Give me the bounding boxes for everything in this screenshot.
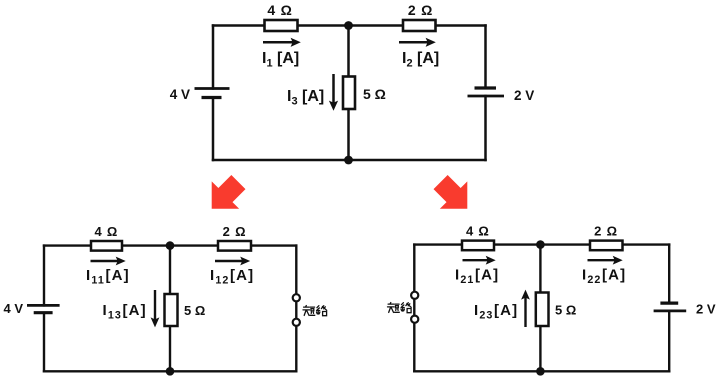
svg-text:4 V: 4 V	[170, 87, 190, 102]
svg-text:4 V: 4 V	[3, 301, 23, 316]
svg-text:4 Ω: 4 Ω	[466, 224, 490, 239]
wire right lower	[484, 96, 487, 160]
wire middle upper	[347, 26, 350, 77]
wire right BL (shorted branch)	[295, 246, 297, 372]
svg-text:4 Ω: 4 Ω	[94, 224, 118, 239]
current arrow I1	[263, 38, 301, 47]
terminal circle BL lower	[293, 319, 300, 326]
current arrow I23 (up)	[521, 290, 530, 327]
wire right upper BR	[668, 245, 670, 304]
wire middle upper BR	[539, 245, 541, 293]
wire right upper	[484, 26, 487, 89]
resistor 2Ω BL	[218, 241, 251, 251]
wire bottom BL	[44, 370, 296, 372]
wire bottom BR	[414, 370, 669, 372]
wire left lower	[212, 98, 215, 161]
svg-text:I1 [A]: I1 [A]	[262, 50, 299, 70]
svg-text:I12[A]: I12[A]	[210, 267, 254, 286]
resistor 4Ω (top)	[265, 20, 298, 31]
red arrow left (to sub-circuit 1)	[198, 168, 252, 222]
svg-text:2 V: 2 V	[514, 88, 534, 103]
node dot BR top	[536, 240, 545, 249]
current arrow I13 (down)	[151, 290, 160, 327]
svg-text:2 V: 2 V	[696, 302, 716, 317]
battery E2 2V	[468, 88, 505, 96]
wire bottom	[213, 159, 486, 162]
resistor 5Ω BL	[165, 294, 178, 326]
wire middle lower BL	[169, 326, 171, 371]
svg-text:I3 [A]: I3 [A]	[287, 88, 324, 108]
node dot top	[344, 21, 353, 30]
current arrow I2	[399, 38, 436, 47]
node dot BL top	[166, 241, 175, 250]
svg-text:5 Ω: 5 Ω	[363, 86, 386, 102]
resistor 5Ω (top)	[343, 77, 355, 110]
wire middle lower	[347, 109, 350, 160]
node dot BR bottom	[536, 367, 545, 376]
svg-text:4 Ω: 4 Ω	[267, 2, 292, 18]
svg-text:I11[A]: I11[A]	[86, 267, 130, 286]
node dot BL bottom	[166, 367, 175, 376]
wire top BL	[44, 244, 296, 246]
wire left upper	[212, 26, 215, 89]
svg-text:5 Ω: 5 Ω	[555, 303, 576, 318]
battery E1 4V	[195, 89, 230, 98]
current arrow I21	[463, 256, 496, 265]
wire top BR	[414, 243, 669, 245]
svg-text:I23[A]: I23[A]	[474, 302, 518, 321]
resistor 2Ω BR	[590, 241, 623, 251]
wire top (node A to corners)	[213, 24, 486, 27]
wire left BR (shorted branch)	[413, 245, 415, 372]
svg-text:2 Ω: 2 Ω	[223, 224, 247, 239]
wire right lower BR	[668, 311, 670, 371]
svg-text:I13[A]: I13[A]	[103, 302, 147, 321]
battery 4V BL	[27, 305, 60, 312]
svg-text:I2 [A]: I2 [A]	[402, 50, 439, 70]
red arrow right (to sub-circuit 2)	[427, 168, 481, 222]
wire middle upper BL	[169, 246, 171, 294]
svg-text:2 Ω: 2 Ω	[594, 224, 618, 239]
terminal circle BR lower	[411, 316, 418, 323]
resistor 2Ω (top)	[403, 20, 436, 31]
terminal circle BL upper	[293, 294, 300, 301]
label 短絡 BL	[303, 306, 315, 316]
wire middle lower BR	[539, 326, 541, 371]
svg-text:5 Ω: 5 Ω	[184, 303, 205, 318]
current arrow I12	[215, 257, 250, 266]
current arrow I3	[329, 74, 338, 111]
resistor 4Ω BL	[91, 241, 122, 251]
node dot bottom	[344, 156, 353, 165]
resistor 5Ω BR	[536, 293, 549, 327]
svg-text:2 Ω: 2 Ω	[408, 2, 433, 18]
svg-text:I22[A]: I22[A]	[582, 267, 626, 286]
svg-text:I21[A]: I21[A]	[455, 267, 499, 286]
current arrow I22	[588, 256, 623, 265]
label 短絡 BR	[388, 303, 400, 313]
wire left lower BL	[43, 313, 45, 372]
resistor 4Ω BR	[462, 241, 494, 251]
terminal circle BR upper	[411, 292, 418, 299]
current arrow I11	[91, 257, 126, 266]
wire left upper BL	[43, 246, 45, 306]
battery 2V BR	[654, 303, 687, 311]
